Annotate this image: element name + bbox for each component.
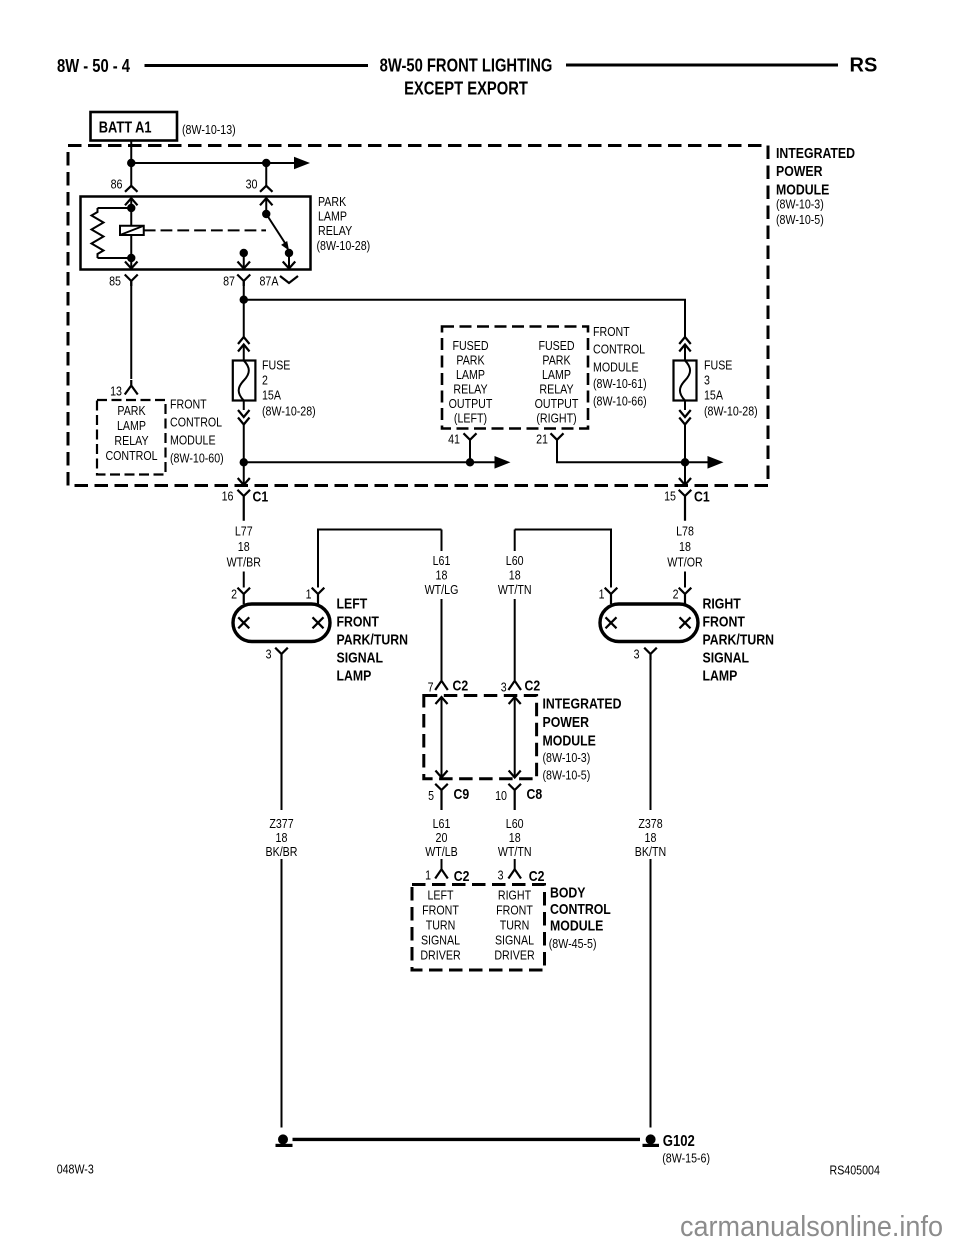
svg-text:WT/BR: WT/BR xyxy=(227,555,261,570)
fuse 2 upper double chevron xyxy=(238,337,250,352)
wire through IPM left xyxy=(441,697,443,778)
svg-text:1: 1 xyxy=(306,587,312,602)
svg-text:C1: C1 xyxy=(694,489,710,506)
svg-text:7: 7 xyxy=(428,680,434,695)
pin 13 connector chevron xyxy=(125,380,138,395)
connector C8 pin 10 chevron xyxy=(508,784,521,810)
arrow feed continues right xyxy=(495,456,511,469)
relay contact 87 node xyxy=(240,249,248,257)
wire fused feed bus to fuse 3 xyxy=(244,300,685,337)
wire Z378 upper segment xyxy=(650,654,652,810)
svg-text:1: 1 xyxy=(425,868,431,883)
resistor bottom link wire xyxy=(98,257,132,259)
right lamp label xyxy=(703,596,775,685)
wire left lamp pin 1 riser xyxy=(318,530,442,588)
pin 86 connector chevron xyxy=(125,186,138,192)
svg-text:(8W-10-66): (8W-10-66) xyxy=(593,394,647,409)
svg-text:30: 30 xyxy=(246,177,258,192)
wire L61 upper segment xyxy=(441,530,443,552)
wire fuse 2 output feed right xyxy=(244,461,495,463)
svg-text:carmanualsonline.info: carmanualsonline.info xyxy=(680,1211,943,1242)
svg-text:MODULE: MODULE xyxy=(593,360,639,375)
svg-text:(8W-10-28): (8W-10-28) xyxy=(317,238,371,253)
svg-text:BATT A1: BATT A1 xyxy=(99,120,152,137)
svg-text:FRONT: FRONT xyxy=(170,397,207,412)
svg-text:FRONT: FRONT xyxy=(337,614,379,631)
svg-text:LAMP: LAMP xyxy=(117,418,146,433)
svg-text:3: 3 xyxy=(266,647,272,662)
svg-text:18: 18 xyxy=(276,830,288,845)
svg-text:EXCEPT EXPORT: EXCEPT EXPORT xyxy=(404,79,528,99)
svg-text:FUSE: FUSE xyxy=(704,358,733,373)
IPM entry arrow left xyxy=(435,697,447,704)
relay label PARK LAMP RELAY xyxy=(317,194,371,253)
wire L61 lower label xyxy=(425,816,458,859)
pin 41 connector chevron xyxy=(464,433,477,440)
pin 87A open connector xyxy=(280,276,298,283)
svg-text:(8W-10-5): (8W-10-5) xyxy=(776,212,824,227)
pin 87 connector chevron xyxy=(237,275,250,287)
battery feed BATT A1 box xyxy=(91,112,178,141)
svg-text:RELAY: RELAY xyxy=(318,223,352,238)
svg-text:(8W-10-28): (8W-10-28) xyxy=(704,404,758,419)
wire L78 lower segment xyxy=(684,572,686,588)
svg-text:C1: C1 xyxy=(253,489,269,506)
relay switch arm arrowhead xyxy=(281,241,289,251)
svg-text:18: 18 xyxy=(436,568,448,583)
svg-text:PARK: PARK xyxy=(542,353,570,368)
svg-text:RELAY: RELAY xyxy=(453,382,487,397)
svg-text:LEFT: LEFT xyxy=(337,596,368,613)
svg-text:86: 86 xyxy=(111,177,123,192)
right front park/turn signal lamp E2 xyxy=(600,604,698,642)
wire through IPM right xyxy=(514,697,516,778)
fuse 3 lower double chevron xyxy=(679,410,691,425)
svg-text:FRONT: FRONT xyxy=(496,903,533,918)
left lamp label xyxy=(337,596,409,685)
header rule left xyxy=(145,64,369,67)
integrated power module label 2 xyxy=(543,696,622,783)
fuse 2 lower double chevron xyxy=(238,410,250,425)
svg-text:INTEGRATED: INTEGRATED xyxy=(776,145,855,162)
svg-text:RS405004: RS405004 xyxy=(830,1163,880,1178)
svg-text:L61: L61 xyxy=(433,816,451,831)
pin 30 connector chevron xyxy=(260,186,273,192)
svg-text:18: 18 xyxy=(238,539,250,554)
svg-text:LAMP: LAMP xyxy=(337,668,372,685)
wire L77 lower segment xyxy=(243,572,245,588)
svg-text:2: 2 xyxy=(673,587,679,602)
junction node pin 30 tap xyxy=(262,159,270,167)
svg-text:C2: C2 xyxy=(453,678,469,695)
wire fuse 2 output to C1 xyxy=(243,425,245,486)
park lamp relay control label xyxy=(105,403,157,463)
IPM exit arrow right xyxy=(509,771,521,778)
resistor top link wire xyxy=(98,207,132,209)
fuse F2 symbol xyxy=(233,361,256,401)
wire L61 label xyxy=(425,553,459,597)
wire L60 lower label xyxy=(498,816,532,859)
svg-text:(LEFT): (LEFT) xyxy=(454,411,487,426)
wire fuse 3 output to C1 xyxy=(684,425,686,486)
wire pin 30 to switch pivot xyxy=(265,198,267,214)
svg-text:FUSED: FUSED xyxy=(452,338,488,353)
svg-text:3: 3 xyxy=(498,868,504,883)
svg-text:3: 3 xyxy=(634,647,640,662)
right lamp pin 3 connector chevron xyxy=(644,648,657,660)
svg-text:DRIVER: DRIVER xyxy=(494,948,534,963)
fused park lamp relay output right label xyxy=(535,338,579,426)
svg-text:5: 5 xyxy=(428,788,434,803)
svg-text:LEFT: LEFT xyxy=(427,888,453,903)
svg-text:POWER: POWER xyxy=(543,714,590,731)
relay pin 30 entry arrow xyxy=(260,198,273,205)
fuse 3 upper double chevron xyxy=(679,337,691,352)
ground G102 xyxy=(643,1134,660,1147)
svg-text:18: 18 xyxy=(509,830,521,845)
svg-text:(RIGHT): (RIGHT) xyxy=(536,411,576,426)
junction node fused feed xyxy=(240,296,248,304)
integrated power module pass-through box xyxy=(424,696,537,779)
svg-text:SIGNAL: SIGNAL xyxy=(421,933,460,948)
svg-text:Z378: Z378 xyxy=(638,816,662,831)
svg-text:MODULE: MODULE xyxy=(170,433,216,448)
connector C9 pin 5 chevron xyxy=(435,784,448,810)
left lamp pin 2 connector chevron xyxy=(237,588,250,604)
junction node coil top xyxy=(127,204,135,212)
svg-text:PARK: PARK xyxy=(318,194,346,209)
svg-text:LAMP: LAMP xyxy=(542,367,571,382)
pin 85 connector chevron xyxy=(125,275,138,287)
svg-text:C2: C2 xyxy=(525,678,541,695)
wire pin 87 down to fuse 2 xyxy=(243,281,245,337)
svg-text:15: 15 xyxy=(664,489,676,504)
svg-text:WT/TN: WT/TN xyxy=(498,844,532,859)
svg-text:3: 3 xyxy=(704,373,710,388)
svg-text:L77: L77 xyxy=(235,524,253,539)
junction node coil bottom xyxy=(127,254,135,262)
junction node battery feed xyxy=(127,159,135,167)
wire chevron to fuse 3 xyxy=(684,345,686,361)
svg-text:13: 13 xyxy=(110,384,122,399)
wire fuse 3 output feed right xyxy=(685,461,708,463)
svg-text:MODULE: MODULE xyxy=(543,733,596,750)
wire L60 to BCM xyxy=(514,859,516,869)
left front park/turn signal lamp E1 xyxy=(233,604,330,642)
svg-text:OUTPUT: OUTPUT xyxy=(535,396,579,411)
svg-text:L60: L60 xyxy=(506,553,524,568)
wire chevron to fuse 2 xyxy=(243,345,245,361)
svg-text:RELAY: RELAY xyxy=(539,382,573,397)
svg-text:87: 87 xyxy=(223,274,235,289)
header rule right xyxy=(566,64,838,67)
svg-text:CONTROL: CONTROL xyxy=(593,342,645,357)
svg-text:(8W-10-60): (8W-10-60) xyxy=(170,451,224,466)
relay contact 87A node xyxy=(285,249,293,257)
svg-text:C2: C2 xyxy=(454,868,470,885)
svg-text:85: 85 xyxy=(109,274,121,289)
svg-text:CONTROL: CONTROL xyxy=(170,415,222,430)
svg-text:(8W-15-6): (8W-15-6) xyxy=(662,1151,710,1166)
wire L61 to BCM xyxy=(441,859,443,869)
svg-text:POWER: POWER xyxy=(776,163,823,180)
wire Z377 upper segment xyxy=(281,654,283,810)
svg-text:FUSE: FUSE xyxy=(262,358,291,373)
svg-text:WT/LB: WT/LB xyxy=(425,844,458,859)
svg-text:20: 20 xyxy=(436,830,448,845)
svg-text:L60: L60 xyxy=(506,816,524,831)
svg-text:048W-3: 048W-3 xyxy=(57,1162,94,1177)
connector C1 pin 15 chevron xyxy=(679,490,692,521)
svg-text:Z377: Z377 xyxy=(269,816,293,831)
svg-text:18: 18 xyxy=(679,539,691,554)
svg-text:BK/BR: BK/BR xyxy=(266,844,298,859)
wire right lamp pin 1 riser xyxy=(515,530,611,588)
svg-text:FUSED: FUSED xyxy=(538,338,574,353)
svg-text:SIGNAL: SIGNAL xyxy=(337,650,384,667)
svg-text:RIGHT: RIGHT xyxy=(498,888,531,903)
svg-text:18: 18 xyxy=(509,568,521,583)
svg-text:C9: C9 xyxy=(454,786,470,803)
IPM entry arrow right xyxy=(509,697,521,704)
wire pin 85 to FCM pin 13 xyxy=(130,281,132,379)
svg-text:RIGHT: RIGHT xyxy=(703,596,741,613)
relay switch arm xyxy=(266,214,285,243)
left lamp pin 1 connector chevron xyxy=(312,588,325,604)
svg-text:(8W-10-61): (8W-10-61) xyxy=(593,376,647,391)
connector C2 pin 1 chevron xyxy=(435,869,448,878)
park lamp relay control box (FCM internal) xyxy=(97,400,166,475)
svg-text:C2: C2 xyxy=(529,868,545,885)
svg-text:LAMP: LAMP xyxy=(703,668,738,685)
fuse F3 symbol xyxy=(674,361,697,401)
wire contact 87A to box edge xyxy=(288,253,290,269)
svg-text:BK/TN: BK/TN xyxy=(635,844,666,859)
svg-text:MODULE: MODULE xyxy=(550,918,603,935)
wire feed bus to pin 30 xyxy=(131,162,295,164)
svg-text:(8W-10-28): (8W-10-28) xyxy=(262,404,316,419)
left front turn signal driver label xyxy=(420,888,460,963)
svg-text:LAMP: LAMP xyxy=(318,209,347,224)
wire battery to relay pin 86 xyxy=(130,141,132,186)
svg-text:3: 3 xyxy=(501,680,507,695)
wire L60 to C2 xyxy=(514,599,516,680)
wire fuse 3 rect to chevron xyxy=(684,401,686,411)
wire L60 upper segment xyxy=(514,530,516,552)
svg-text:FRONT: FRONT xyxy=(422,903,459,918)
wire contact 87 to box edge xyxy=(243,253,245,269)
connector C2 pin 3 chevron xyxy=(508,681,521,690)
svg-text:16: 16 xyxy=(222,489,234,504)
wire fuse 2 rect to chevron xyxy=(243,401,245,411)
svg-text:FRONT: FRONT xyxy=(593,324,630,339)
svg-text:15A: 15A xyxy=(704,388,723,403)
svg-text:TURN: TURN xyxy=(500,918,530,933)
relay pin 87 exit arrow xyxy=(238,262,251,269)
svg-text:(8W-45-5): (8W-45-5) xyxy=(549,936,597,951)
resistor R (relay suppression) xyxy=(92,208,104,258)
integrated power module label xyxy=(776,145,855,227)
wire L61 to C2 xyxy=(441,599,443,680)
left lamp pin 3 connector chevron xyxy=(275,648,288,660)
arrow feed continues xyxy=(294,157,310,170)
wire Z377 to ground xyxy=(281,859,283,1128)
svg-text:41: 41 xyxy=(448,432,460,447)
wire pin 21 to fuse 3 output xyxy=(557,440,685,463)
relay actuation dashed link xyxy=(144,229,266,231)
wire tap down to pin 30 xyxy=(265,163,267,186)
fuse 3 value label xyxy=(704,358,758,419)
IPM exit arrow left xyxy=(435,771,447,778)
wire pin 41 to feed bus xyxy=(469,440,471,463)
wire Z378 to ground xyxy=(650,859,652,1128)
relay K1 box xyxy=(81,197,311,270)
relay coil wire pin 86 to pin 85 xyxy=(130,198,132,269)
body control module label xyxy=(549,885,611,952)
svg-text:2: 2 xyxy=(262,373,268,388)
svg-text:FRONT: FRONT xyxy=(703,614,745,631)
ground splice left xyxy=(276,1134,293,1147)
svg-text:CONTROL: CONTROL xyxy=(105,448,157,463)
body control module box xyxy=(412,885,545,971)
svg-text:87A: 87A xyxy=(260,274,279,289)
wire Z377 label xyxy=(266,816,298,859)
svg-text:18: 18 xyxy=(645,830,657,845)
IPM exit arrow at C1 pin 15 xyxy=(679,478,691,485)
connector C1 pin 16 chevron xyxy=(237,490,250,521)
right lamp pin 2 connector chevron xyxy=(679,588,692,604)
svg-text:1: 1 xyxy=(599,587,605,602)
svg-text:8W-50 FRONT LIGHTING: 8W-50 FRONT LIGHTING xyxy=(380,56,553,76)
svg-text:INTEGRATED: INTEGRATED xyxy=(543,696,622,713)
wire L77 label xyxy=(227,524,261,570)
svg-text:PARK/TURN: PARK/TURN xyxy=(703,632,775,649)
svg-text:LAMP: LAMP xyxy=(456,367,485,382)
svg-text:WT/LG: WT/LG xyxy=(425,582,459,597)
svg-text:WT/OR: WT/OR xyxy=(667,555,703,570)
wire L78 label xyxy=(667,524,703,570)
svg-text:(8W-10-3): (8W-10-3) xyxy=(776,197,824,212)
svg-text:PARK/TURN: PARK/TURN xyxy=(337,632,409,649)
svg-text:2: 2 xyxy=(231,587,237,602)
junction node pin 41 tap xyxy=(466,458,474,466)
svg-text:RELAY: RELAY xyxy=(114,433,148,448)
fused park lamp relay output left label xyxy=(449,338,493,426)
svg-text:SIGNAL: SIGNAL xyxy=(495,933,534,948)
svg-text:PARK: PARK xyxy=(456,353,484,368)
svg-text:15A: 15A xyxy=(262,388,281,403)
svg-text:(8W-10-5): (8W-10-5) xyxy=(543,768,591,783)
relay pin 87A exit arrow xyxy=(283,262,296,269)
front control module label (8W-10-60) xyxy=(170,397,224,466)
pin 21 connector chevron xyxy=(551,433,564,440)
connector C2 pin 7 chevron xyxy=(435,681,448,690)
relay pin 85 exit arrow xyxy=(125,262,138,269)
svg-text:L78: L78 xyxy=(676,524,694,539)
svg-text:PARK: PARK xyxy=(117,403,145,418)
svg-text:WT/TN: WT/TN xyxy=(498,582,532,597)
junction node fuse 3 output xyxy=(681,458,689,466)
svg-text:10: 10 xyxy=(495,788,507,803)
relay coil symbol xyxy=(120,226,144,235)
svg-text:SIGNAL: SIGNAL xyxy=(703,650,750,667)
ground bus wire xyxy=(293,1138,641,1141)
svg-text:CONTROL: CONTROL xyxy=(550,901,611,918)
right lamp pin 1 connector chevron xyxy=(605,588,618,604)
arrow feed continues right 2 xyxy=(708,456,724,469)
right front turn signal driver label xyxy=(494,888,534,963)
svg-text:L61: L61 xyxy=(433,553,451,568)
junction node fuse 2 output xyxy=(240,458,248,466)
svg-text:G102: G102 xyxy=(663,1133,695,1150)
svg-text:(8W-10-13): (8W-10-13) xyxy=(182,122,236,137)
IPM exit arrow at C1 pin 16 xyxy=(238,478,250,485)
svg-text:OUTPUT: OUTPUT xyxy=(449,396,493,411)
svg-text:RS: RS xyxy=(850,55,878,77)
svg-text:BODY: BODY xyxy=(550,885,586,902)
front control module label (8W-10-61) xyxy=(593,324,647,409)
fuse 2 value label xyxy=(262,358,316,419)
wire Z378 label xyxy=(635,816,666,859)
relay pin 86 entry arrow xyxy=(125,198,138,205)
integrated power module box U-IPM xyxy=(68,146,768,486)
svg-text:(8W-10-3): (8W-10-3) xyxy=(543,750,591,765)
junction node switch pivot xyxy=(262,210,270,218)
wire L60 label xyxy=(498,553,532,597)
svg-text:TURN: TURN xyxy=(426,918,456,933)
connector C2 pin 3 chevron (BCM) xyxy=(508,869,521,878)
svg-text:DRIVER: DRIVER xyxy=(420,948,460,963)
svg-text:C8: C8 xyxy=(527,786,543,803)
fused park lamp relay output box xyxy=(442,327,588,429)
svg-text:21: 21 xyxy=(536,432,548,447)
svg-text:8W - 50 - 4: 8W - 50 - 4 xyxy=(57,56,130,76)
